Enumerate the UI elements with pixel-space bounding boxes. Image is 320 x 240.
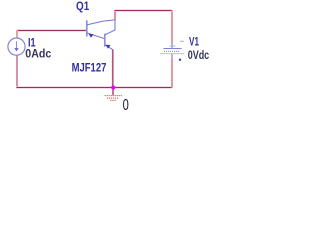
svg-text:MJF127: MJF127 [72,61,107,75]
wire emitter down [112,50,114,88]
wire bottom rail [16,86,172,88]
junction dot [110,85,116,90]
wire base horizontal I1 to Q1 [17,29,86,31]
svg-text:0: 0 [123,97,129,114]
voltage source V1 plate 3 dashed [161,53,185,55]
transistor Q1 T1 emitter arrow [89,34,94,38]
wire I1 bottom lead [16,55,18,88]
transistor Q1 T2 emitter line [105,45,113,50]
wire I1 top lead [16,30,18,38]
ground line 3 [110,99,116,101]
voltage source V1 plate 2 dashed [164,50,180,52]
transistor Q1 T1 collector line [87,20,115,25]
svg-text:V1: V1 [189,35,199,49]
voltage source V1 top pin [171,44,173,49]
wire V1 top lead [171,11,173,44]
wire V1 bottom lead [171,59,173,88]
svg-text:0Adc: 0Adc [25,47,51,61]
transistor Q1 base bar T2 [104,34,106,47]
voltage source V1 minus dot [179,59,181,61]
current source I1 circle [8,38,25,55]
svg-text:Q1: Q1 [76,0,89,13]
voltage source V1 plate 1 solid [163,48,181,50]
voltage source V1 plus sign [170,45,176,47]
transistor Q1 T1 emitter line [87,33,105,39]
transistor Q1 T2 collector line [105,20,115,35]
wire ground stub [112,88,114,96]
voltage source V1 bottom pin [171,54,173,59]
ground line 2 [107,97,119,99]
transistor Q1 T2 emitter arrow [106,45,111,49]
svg-text:0Vdc: 0Vdc [188,48,210,62]
voltage source V1 small top-right dash [180,40,184,42]
transistor Q1 base bar T1 [86,20,88,36]
ground line 1 [105,95,123,97]
wire collector top [114,11,116,21]
current source I1 arrow [14,41,18,51]
wire top rail [114,9,172,11]
